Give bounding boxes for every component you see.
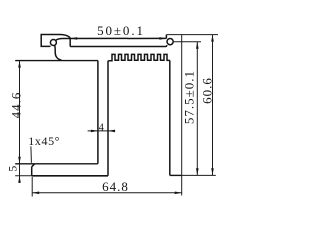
arrow 60.6 down	[211, 168, 214, 175]
svg-text:5: 5	[6, 165, 20, 172]
44.6 dim line	[19, 61, 21, 183]
arrow 60.6 up	[211, 35, 214, 42]
svg-text:4: 4	[99, 122, 105, 133]
bar bottom edge	[70, 45, 167, 46]
inner bottom line	[15, 163, 98, 165]
foot left face	[31, 167, 33, 176]
slab left face / slot right wall	[107, 61, 109, 176]
64.8 left extension	[31, 177, 33, 197]
serrated fins	[108, 54, 170, 60]
arrow 57.5 up	[196, 42, 199, 49]
chamfer 1x45	[32, 164, 35, 167]
arrow 64.8 left	[32, 192, 39, 195]
bar left end tick	[69, 38, 71, 46]
arrow 4 right pointing left	[108, 130, 115, 133]
arrow 4 left pointing right	[91, 130, 98, 133]
svg-text:1x45°: 1x45°	[28, 134, 60, 148]
long right extension line	[181, 35, 183, 196]
top extension line (60.6)	[166, 34, 218, 36]
60.6 dim line	[212, 35, 214, 176]
arrow 57.5 down	[196, 168, 199, 175]
57.5 top stub	[173, 41, 201, 43]
5 bottom extension	[15, 175, 32, 177]
svg-text:44.6: 44.6	[8, 92, 23, 119]
bar top edge (coincident with 50-dim line)	[56, 38, 167, 40]
profile: DIN-clip tab top-left	[41, 35, 70, 47]
arrow 5 up from below	[18, 176, 21, 183]
svg-text:50±0.1: 50±0.1	[97, 23, 145, 38]
slab right face	[169, 60, 171, 175]
outer bottom	[32, 175, 108, 177]
arrow 50 right	[159, 37, 166, 40]
svg-text:57.5±0.1: 57.5±0.1	[181, 70, 196, 124]
57.5 dim line	[196, 42, 198, 176]
neck wall from knob down to web	[55, 45, 62, 60]
arrow 44.6 down	[18, 157, 21, 164]
bar right end corner edge	[165, 35, 167, 39]
arrow 50 left	[70, 37, 77, 40]
bottom right step	[170, 174, 182, 176]
svg-text:64.8: 64.8	[102, 179, 129, 194]
knob circle right	[167, 39, 173, 45]
64.8 dim line	[32, 192, 182, 194]
knob circle left	[50, 40, 56, 46]
slot left wall	[97, 61, 99, 164]
arrow 44.6 up	[18, 61, 21, 68]
1x45 leader	[30, 146, 33, 162]
extension line bottom-right	[182, 174, 216, 176]
4 dim line	[88, 130, 115, 132]
svg-text:60.6: 60.6	[199, 77, 214, 104]
arrow 64.8 right	[175, 192, 182, 195]
web underside line	[15, 60, 98, 62]
